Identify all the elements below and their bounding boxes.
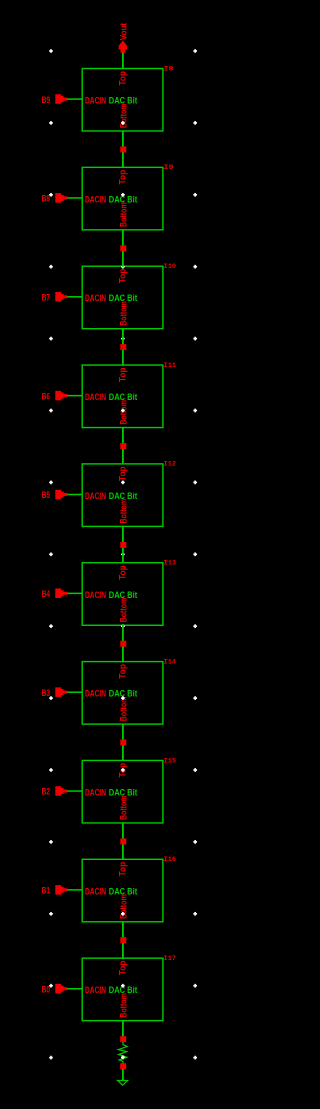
- svg-text:I11: I11: [164, 362, 177, 369]
- svg-text:Top: Top: [117, 268, 127, 283]
- svg-text:DACIN: DACIN: [85, 787, 106, 797]
- svg-text:Top: Top: [117, 466, 127, 481]
- svg-text:Bottom: Bottom: [118, 598, 128, 623]
- svg-text:DACIN: DACIN: [85, 985, 106, 995]
- svg-text:DACIN: DACIN: [85, 194, 106, 204]
- svg-text:B6: B6: [42, 391, 50, 401]
- svg-text:DACIN: DACIN: [85, 590, 106, 600]
- svg-text:B2: B2: [42, 787, 50, 797]
- svg-text:Bottom: Bottom: [118, 993, 128, 1018]
- svg-text:Vout: Vout: [119, 23, 129, 40]
- svg-text:I17: I17: [164, 955, 177, 962]
- svg-text:I9: I9: [164, 164, 174, 171]
- svg-text:Bottom: Bottom: [118, 301, 128, 326]
- svg-text:Top: Top: [117, 664, 127, 679]
- svg-text:Bottom: Bottom: [118, 697, 128, 722]
- svg-text:Top: Top: [117, 565, 127, 580]
- svg-text:B1: B1: [42, 886, 50, 896]
- svg-text:DACIN: DACIN: [85, 293, 106, 303]
- svg-text:DAC Bit: DAC Bit: [109, 491, 137, 501]
- svg-text:I15: I15: [164, 757, 177, 764]
- svg-text:DAC Bit: DAC Bit: [109, 96, 137, 106]
- svg-text:B3: B3: [42, 688, 50, 698]
- svg-text:B4: B4: [42, 589, 50, 599]
- svg-text:DAC Bit: DAC Bit: [109, 886, 137, 896]
- svg-text:I12: I12: [164, 461, 177, 468]
- svg-text:Bottom: Bottom: [118, 795, 128, 820]
- svg-text:DACIN: DACIN: [85, 96, 106, 106]
- svg-text:Top: Top: [117, 861, 127, 876]
- svg-text:I13: I13: [164, 560, 177, 567]
- svg-text:DAC Bit: DAC Bit: [109, 293, 137, 303]
- svg-text:Top: Top: [117, 960, 127, 975]
- svg-text:DACIN: DACIN: [85, 491, 106, 501]
- svg-text:DACIN: DACIN: [85, 392, 106, 402]
- svg-text:DAC Bit: DAC Bit: [109, 392, 137, 402]
- svg-text:DACIN: DACIN: [85, 689, 106, 699]
- svg-text:Bottom: Bottom: [118, 499, 128, 524]
- svg-text:B9: B9: [42, 95, 50, 105]
- svg-text:Bottom: Bottom: [118, 202, 128, 227]
- svg-text:B0: B0: [42, 984, 50, 994]
- svg-text:I14: I14: [164, 658, 177, 665]
- svg-text:Top: Top: [117, 169, 127, 184]
- svg-text:Top: Top: [117, 71, 127, 86]
- svg-text:DACIN: DACIN: [85, 886, 106, 896]
- svg-text:DAC Bit: DAC Bit: [109, 590, 137, 600]
- svg-text:Top: Top: [117, 367, 127, 382]
- svg-text:I16: I16: [164, 856, 177, 863]
- svg-text:B8: B8: [42, 194, 50, 204]
- svg-text:B7: B7: [42, 293, 50, 303]
- svg-text:B5: B5: [42, 490, 50, 500]
- svg-text:I10: I10: [164, 263, 177, 270]
- svg-text:DAC Bit: DAC Bit: [109, 787, 137, 797]
- svg-text:I8: I8: [164, 65, 174, 72]
